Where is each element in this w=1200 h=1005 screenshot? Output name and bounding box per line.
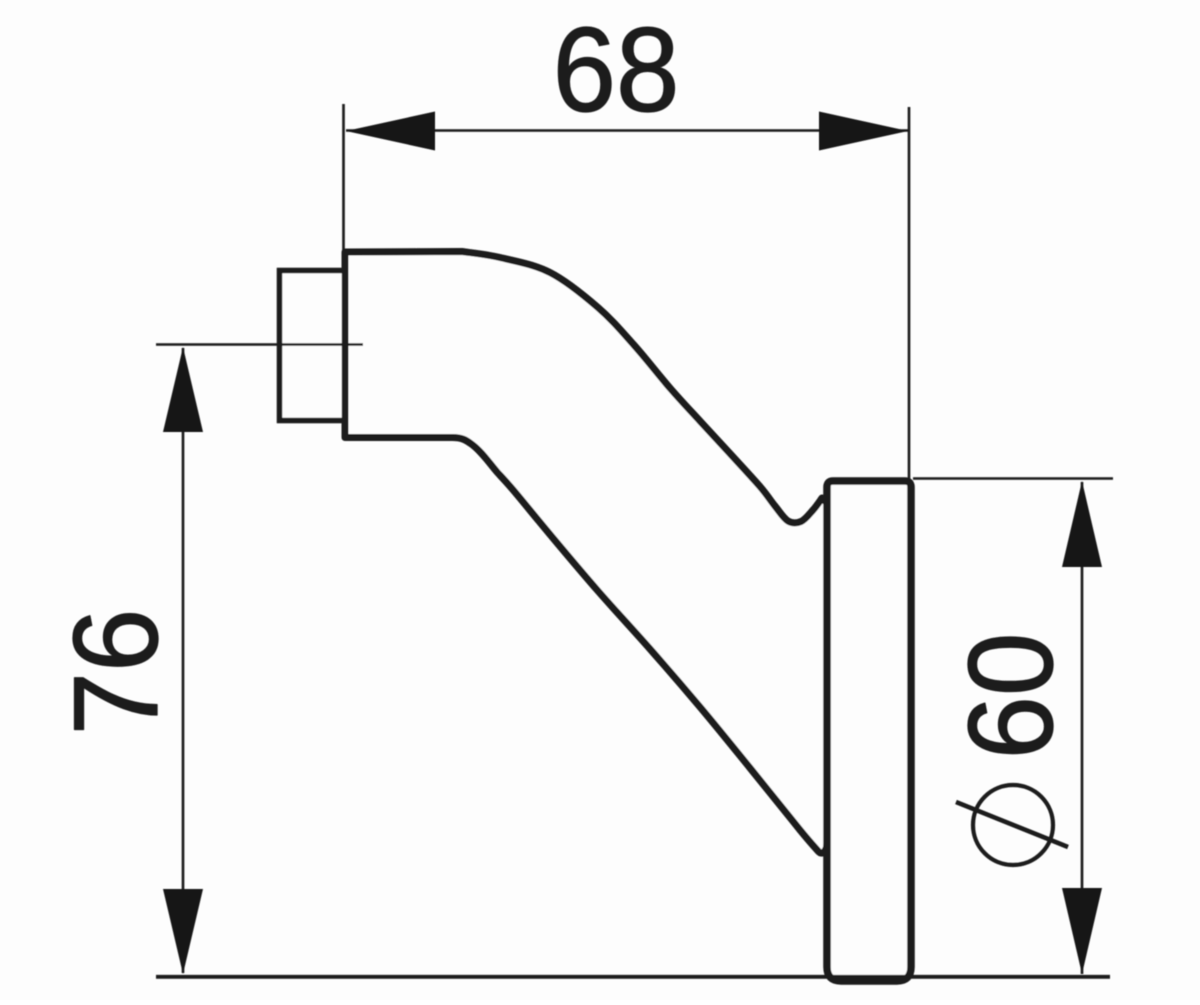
extension line right (68 dim) — [908, 107, 911, 479]
diameter symbol circle — [973, 785, 1053, 865]
extension line (76 dim) — [156, 343, 363, 346]
diameter symbol slash — [956, 802, 1068, 847]
extension line (d60 dim) — [913, 477, 1113, 480]
arrow up of 76 — [163, 347, 203, 432]
arrow down of d60 — [1062, 888, 1102, 974]
arrow down of 76 — [163, 889, 203, 974]
dimension line 76 — [182, 348, 185, 973]
arrow left of 68 — [346, 112, 435, 151]
bracket arm outline — [345, 252, 827, 854]
baseline — [156, 975, 1110, 979]
arrow up of d60 — [1062, 481, 1102, 567]
lamp plate — [827, 481, 911, 981]
arrow right of 68 — [819, 112, 908, 151]
svg-text:76: 76 — [48, 609, 182, 736]
svg-text:60: 60 — [943, 633, 1077, 760]
hex nut block — [280, 271, 345, 421]
svg-text:68: 68 — [553, 2, 680, 136]
dimension line 68 — [346, 129, 908, 132]
dimension line d60 — [1081, 482, 1084, 974]
extension line left (68 dim) — [342, 104, 345, 251]
